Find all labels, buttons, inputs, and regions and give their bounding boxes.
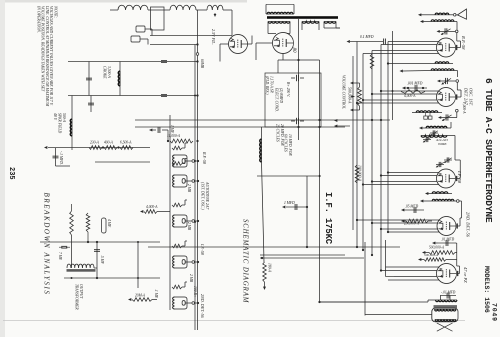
electrolytic cap 1 [291,75,304,81]
bd wire x162 [95,161,150,163]
electrolytic cap 2 [291,118,304,124]
cap .01 MFD output [440,291,456,299]
svg-text:80: 80 [291,48,296,54]
bd cap 7mf out [59,246,70,248]
ground arrow ant primary [418,13,421,16]
pt fil2 leads [324,22,340,29]
bd main bus y305 [194,45,196,331]
bd rail x44 [150,43,199,45]
bd cap 2 y411 [88,96,94,113]
wire V3 pin1 down [388,172,439,174]
svg-text:7 MF.: 7 MF. [58,252,62,261]
svg-text:VOLUME CONTROL: VOLUME CONTROL [342,75,346,109]
bleeder res 230 [89,141,102,150]
resistor 11000 [167,134,199,143]
bd stage block det [172,241,199,268]
bus wire y147 [352,56,354,230]
svg-text:.1 MF.: .1 MF. [154,289,158,299]
caption BREAKDOWN ANALYSIS [43,193,51,296]
label cycles 2 [284,134,293,156]
caption SCHEMATIC DIAGRAM [242,219,249,303]
wire rf sec bottom [400,70,432,73]
bus wire y107 [392,31,394,120]
page number 235 [7,167,15,180]
tube V7 bd rectifier [229,35,248,54]
svg-text:(FLD. RES.): (FLD. RES.) [265,76,269,95]
speaker output transformer secondary [435,309,457,311]
bd wire loops top [94,267,97,269]
tube V3 IF-58 [437,169,457,188]
bd label point1 [154,289,158,299]
node grid junction 2 [456,80,459,83]
wire audio bottoms [418,242,438,262]
label .5 MF [100,255,104,265]
note IF frequency [323,192,333,245]
label spkr field [53,113,66,134]
svg-text:I.F. 175KC: I.F. 175KC [323,192,333,245]
svg-text:.05 MFD: .05 MFD [405,205,419,209]
cap .001 MFD [402,82,427,92]
svg-text:100 B+: 100 B+ [193,286,197,298]
label 2MB 3 [189,274,193,283]
wire speaker leads to cap [441,296,451,301]
pt HV winding [268,22,290,24]
wire V3 pin3 down [372,181,437,183]
wire V1 pin4 down [363,53,439,55]
cap 0.1 MFD [347,35,386,45]
resistor 500000 audio [429,246,455,255]
bd wire left rail 1 [110,10,232,36]
wire V2 pin2 down [372,93,437,95]
tube V2 converter 2A7 [437,88,457,107]
bd stage block out [172,282,199,309]
svg-text:500-A: 500-A [62,113,66,123]
long wire x120 [135,119,390,121]
svg-text:7049: 7049 [491,303,498,322]
pt filament winding 1 [302,22,319,24]
wire osc top [456,109,459,117]
label cycles 1 [276,124,285,146]
label 2MB 1 [187,184,191,193]
bd resistor 4000 [140,205,170,213]
svg-text:CHOKE: CHOKE [103,66,107,79]
wire V4 pin2 down [372,222,438,224]
speaker cone cross [437,323,453,331]
resistor 250000 det [401,219,432,226]
volume control pot [350,82,361,112]
svg-text:48 V.: 48 V. [53,113,57,121]
svg-text:2.5V FIL.: 2.5V FIL. [211,29,216,45]
label OSC 1ST DET [464,87,474,106]
bd res pair 1 [70,211,74,235]
wire V1 pin1 down [388,41,439,43]
field coil choke main [260,139,262,162]
svg-text:-.1 MFD.: -.1 MFD. [59,151,63,165]
arrow mid misc [334,119,350,128]
svg-text:.5 MF: .5 MF [100,255,104,265]
bd spkr field coil [70,96,72,151]
bd plug [131,26,152,45]
bd stage label RF [202,151,207,164]
label 1000 ohm osc [461,102,466,114]
speaker voice coil [435,320,456,322]
svg-text:235: 235 [7,167,15,180]
label 60MB [200,59,204,69]
resistor audio grid leak [424,253,446,261]
bd link y411 cap [86,62,92,96]
wire grid to varcap [456,28,458,31]
pt primary winding [267,12,293,14]
pt HV leads [268,22,290,34]
label 7 MFD out [58,252,62,261]
pt primary leads [266,4,294,14]
bus wire y114 [386,240,395,277]
junction dots buses [356,90,389,272]
bus wire y119 [380,45,382,271]
wire grid run to V2 top [457,82,461,97]
svg-text:230-A: 230-A [90,141,100,145]
bleeder res 6500 [120,141,133,150]
variable capacitor C1 tuning [437,28,456,35]
wire rf sec top [454,71,458,78]
long wire x255 [260,254,345,256]
cap .05 MFD det [401,205,424,214]
bus wire y143 [356,42,358,248]
resistor 100000 in bus [355,165,359,183]
svg-text:AUTODYNE 2A7: AUTODYNE 2A7 [205,181,209,210]
wire IF1 top sec [447,135,451,137]
wire V5 pin2 down [381,270,438,272]
title 6 TUBE A-C SUPERHETERODYNE [483,78,494,223]
svg-text:20 MFD. FOR: 20 MFD. FOR [280,124,284,146]
wire V4 pin1 down [357,219,439,221]
IF2 secondary coil [432,199,454,201]
svg-text:60 CYCLES: 60 CYCLES [284,134,288,152]
svg-text:2ND. DET.-56: 2ND. DET.-56 [200,294,205,319]
rf coupling coil primary [435,62,449,64]
bd main bus y302 [197,10,199,330]
bus wire y128 [371,51,373,256]
bd stage block IF [172,200,199,227]
bleeder arrow [44,146,120,149]
osc padder trimmer 1 [428,116,432,119]
node ant connector [453,14,456,17]
bd rail x35 [150,35,232,37]
wire V4 pin4 down [388,231,439,233]
wire audio top [446,243,457,266]
wire V5 pin1 down [386,266,440,268]
bd res pair 2 [86,213,90,232]
wire grid run to V1 top [457,33,461,48]
wire y193 link [306,176,308,248]
bus wire y137 [362,54,364,251]
variable capacitor C2 tuning [437,78,456,85]
svg-text:60MB: 60MB [200,59,204,69]
svg-text:I.F.-58: I.F.-58 [457,170,462,184]
wire speaker bottom 1 [320,300,436,302]
wire V1 pin3 down [372,50,437,52]
IF1 secondary coil [421,136,447,138]
IF2 trimmer 1 [444,157,452,163]
bd cap 4MF [101,218,111,233]
wire x176 vertical [257,175,321,177]
bus wire y135 [364,242,366,316]
tube V5 output 47 [437,264,458,284]
cathode resistor V1 in bus [370,54,374,69]
label 47 or PZ [463,267,468,283]
label VOLUME CONTROL [342,75,352,109]
svg-text:B+ 290 V.: B+ 290 V. [286,82,290,97]
speaker transformer core [434,305,458,308]
wire IF2 sec top [454,200,457,202]
svg-text:20M-A: 20M-A [135,294,146,298]
bus wire y112 [387,42,389,233]
svg-text:IN OPERATION.: IN OPERATION. [36,5,40,33]
wire V2 pin3 down [363,99,437,101]
bd long wire x242 [40,241,160,243]
speaker frame [432,308,458,322]
svg-text:.001 MFD: .001 MFD [407,82,423,86]
svg-text:I.F.-58: I.F.-58 [200,243,205,255]
svg-text:6 TUBE A-C SUPERHETERODYNE: 6 TUBE A-C SUPERHETERODYNE [483,78,494,223]
label elect cond [275,87,284,112]
bd transformer winding 3 [118,5,148,10]
rf coupling coil secondary [431,69,454,71]
label 2.5V FIL bd [211,29,216,45]
svg-text:TRANSFORMER: TRANSFORMER [75,284,79,310]
label 2ND DET 56 [466,212,471,238]
svg-text:80MB: 80MB [438,142,446,146]
wire ant primary down [421,14,435,16]
antenna [456,9,467,19]
bd wire y362 [137,241,139,288]
IF2 trimmer 2 [436,162,444,168]
wire rect cathode [256,43,273,60]
svg-text:NOTE:: NOTE: [54,5,59,19]
pt fil1 leads [302,22,319,31]
svg-text:R.F.-58: R.F.-58 [202,151,207,164]
model number 7049 [491,303,498,322]
svg-text:OUTPUT: OUTPUT [79,284,83,299]
svg-text:1 MF.: 1 MF. [170,125,174,134]
bd cap y403 [94,241,100,279]
wire V3 pin4 down [363,184,439,186]
IF1 trimmer 2 [423,137,431,143]
node grid junction V4 [457,200,460,203]
svg-text:SCHEMATIC DIAGRAM: SCHEMATIC DIAGRAM [242,219,249,303]
cap .01 MFD det out [438,238,455,247]
bd transformer fil winding [207,5,223,17]
svg-text:BREAKDOWN ANALYSIS: BREAKDOWN ANALYSIS [43,193,51,296]
IF1 trimmer 1 [430,130,438,136]
wire V1 pin2 down [381,44,437,46]
bd choke coil [118,71,120,86]
bd stage label autodyne [201,181,210,210]
wire y201 [297,19,299,140]
ground arrow field [263,282,266,290]
label I.F.-58 [457,170,462,184]
svg-text:10 MFD. FOR: 10 MFD. FOR [288,134,292,156]
label choke [103,66,112,79]
label 100000 ohm bus [357,165,362,182]
bd stage label det [200,294,205,319]
svg-text:2ND. DET.-56: 2ND. DET.-56 [466,212,471,238]
wire V2 pin1 down [381,90,439,92]
wire IF1 sec to V3 top [451,136,460,179]
tube V6 rectifier 80 [273,33,294,54]
wire ant sec top [454,22,457,28]
bd rail x95 cap [68,94,199,96]
osc padder trimmer 2 [424,116,428,119]
wire V5 grid [457,266,460,274]
bd cap 1MF [149,125,174,141]
svg-text:0.1 MFD: 0.1 MFD [360,35,374,39]
scan crease vertical [3,320,465,322]
svg-text:4 MF.: 4 MF. [107,219,111,228]
svg-text:2 MB: 2 MB [189,274,193,283]
antenna coil primary [435,13,449,15]
wire y180 bus [299,60,321,303]
scan edge left [0,0,247,3]
wire rf prim ends [387,62,453,64]
label 80 [291,48,296,54]
bleeder res 400 [104,141,117,150]
antenna coil secondary [431,20,454,22]
label B+ 290V [286,82,290,97]
long wire x302 [320,301,401,303]
bd bus y330 [169,115,171,310]
wire V5 pin3 down [394,276,438,278]
wire IF1 top pri [447,122,451,128]
label output transformer [75,284,84,310]
ground arrow ant secondary [420,20,423,23]
wire V4 pin3 down [381,228,438,230]
wire y222 link [278,60,283,73]
node grid junction 1 [455,30,458,33]
wire IF1 pri bottom [419,127,426,130]
label IF1 part numbers [435,138,448,146]
svg-text:ELECT. COND.: ELECT. COND. [275,87,279,112]
svg-text:MODELS: 1506: MODELS: 1506 [483,266,490,313]
bd wire right x-d [72,204,90,268]
IF2 primary coil [432,192,448,194]
svg-text:R.F.-58: R.F.-58 [461,35,466,50]
label 2MB 2 [187,222,191,231]
bd output transformer [67,264,96,270]
bd transformer winding 2 [170,5,196,10]
svg-text:25 CYCLES: 25 CYCLES [276,124,280,142]
filter box [265,73,321,127]
svg-text:1 MFD: 1 MFD [284,201,295,205]
long wire x127 [135,126,345,128]
wire bd rect [220,36,252,62]
wire IF2 sec bottom [420,200,432,203]
wire ant down [449,14,453,16]
bd long wire x278 [64,277,160,279]
oscillator coil [412,111,442,116]
pt filament winding 2 [324,22,336,24]
svg-text:-.01 MFD: -.01 MFD [441,291,456,295]
long wire x258 [260,257,364,259]
wire V5 pin4 down [388,279,439,281]
wire ant sec bottom [423,21,431,23]
wire speaker lead down [365,314,432,316]
svg-text:(1ST. DET. OSC.): (1ST. DET. OSC.) [201,182,205,210]
resistor 180 ohm [263,262,272,282]
bd rail x61 cap [68,60,199,62]
svg-text:(2) 8MFD: (2) 8MFD [279,88,283,103]
bd cap 7mfd [53,148,71,166]
IF1 primary coil [426,126,447,128]
speaker output transformer primary [436,300,458,302]
wire field coil [262,127,265,262]
wire IF2 pri ends [425,192,452,195]
bd stage block autodyne [172,159,199,188]
svg-text:180-A: 180-A [268,263,272,273]
svg-text:47 or PZ: 47 or PZ [463,267,468,283]
variable capacitor C3 osc tuning [438,114,457,121]
label MODELS 1506 [483,266,490,313]
bd stage label IF [200,243,205,255]
bd box left [151,7,165,30]
note text [36,5,58,107]
wire V2 pin4 down [357,102,439,104]
wire V3 pin2 down [381,175,437,177]
label R.F.-58 [461,35,466,50]
svg-text:SPKR FIELD: SPKR FIELD [58,113,62,134]
bleeder chain wire [88,147,150,149]
tube V4 2nd det 56 [437,217,457,236]
label 7 MFD [59,151,63,165]
bd link y380 [119,62,121,96]
wire rect to bus [283,54,299,61]
tube V1 RF-58 [437,38,457,57]
label fld res [265,76,274,95]
svg-text:2 MB: 2 MB [187,222,191,231]
wire V4 grid [457,201,462,226]
cathode resistor 4000 V2 [401,90,425,99]
bd resistor 20M [128,294,157,302]
cap 1 MFD mid [282,201,308,210]
svg-text:2 MB: 2 MB [187,184,191,193]
bd label misc [193,286,197,298]
long wire x247 [148,246,400,248]
junction x120 [371,119,382,121]
node bd bus open [196,53,199,56]
svg-text:400-A: 400-A [104,141,114,145]
power transformer core [267,16,338,19]
scan edge bottom [0,0,5,337]
bd stage block RF [172,143,199,167]
